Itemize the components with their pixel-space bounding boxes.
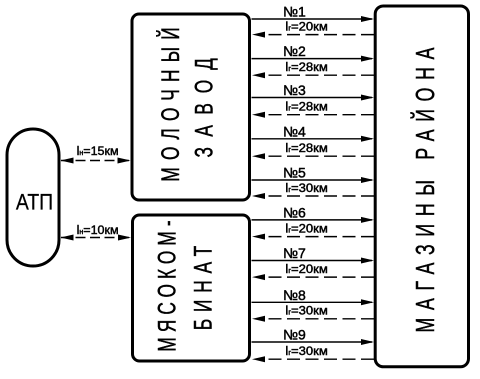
label lн=15км <box>77 144 119 158</box>
wire dashed shaft <box>61 160 131 162</box>
label АТП <box>16 190 53 215</box>
route 1 <box>252 4 375 38</box>
wire dashed return <box>269 358 375 360</box>
wire dashed return <box>269 34 375 36</box>
block МОЛОЧНЫЙ ЗАВОД (dairy plant) <box>132 14 250 200</box>
svg-text:№8: №8 <box>283 287 306 303</box>
label ЗАВОД <box>189 58 218 158</box>
arrowhead left <box>252 274 265 280</box>
label lг=30км <box>285 343 327 358</box>
label lг=30км <box>285 303 327 318</box>
arrowhead left <box>252 112 265 118</box>
wire dashed return <box>269 114 375 116</box>
svg-text:lг=28км: lг=28км <box>285 59 327 74</box>
block МЯСОКОМБИНАТ (meat plant) <box>133 215 250 361</box>
wire dashed shaft <box>61 237 131 239</box>
svg-text:АТП: АТП <box>16 190 53 215</box>
label lг=20км <box>285 261 327 276</box>
svg-text:ЗАВОД: ЗАВОД <box>189 58 218 158</box>
wire dashed return <box>269 195 375 197</box>
arrowhead right <box>361 177 374 183</box>
arrowhead right <box>361 339 374 345</box>
svg-text:№2: №2 <box>283 43 306 59</box>
arrowhead right <box>361 95 374 101</box>
label МОЛОЧНЫЙ <box>155 27 184 181</box>
route 8 <box>252 287 375 322</box>
label lн=10км <box>77 223 119 237</box>
arrowhead right <box>361 16 374 22</box>
arrowhead left <box>252 153 265 159</box>
zero-run link АТП, 15 km <box>61 144 131 163</box>
block МАГАЗИНЫ РАЙОНА (district shops) <box>375 6 468 367</box>
wire solid outbound <box>252 219 373 221</box>
route 4 <box>252 123 375 159</box>
label lг=28км <box>285 140 327 155</box>
route 3 <box>252 82 375 118</box>
svg-text:МЯСОКОМ-: МЯСОКОМ- <box>152 220 181 351</box>
svg-text:№1: №1 <box>283 4 306 20</box>
wire dashed return <box>269 236 375 238</box>
wire solid outbound <box>252 260 373 262</box>
arrowhead right <box>361 136 374 142</box>
svg-text:lн=15км: lн=15км <box>77 144 119 158</box>
svg-text:МАГАЗИНЫ РАЙОНА: МАГАЗИНЫ РАЙОНА <box>410 47 439 332</box>
zero-run link АТП, 10 km <box>61 223 132 240</box>
svg-text:№7: №7 <box>283 245 306 261</box>
label lг=28км <box>285 99 327 114</box>
svg-text:lг=20км: lг=20км <box>285 261 327 276</box>
svg-text:lг=20км: lг=20км <box>285 19 327 34</box>
svg-text:lг=30км: lг=30км <box>285 343 327 358</box>
arrowhead right <box>361 56 374 62</box>
svg-text:№4: №4 <box>283 123 306 139</box>
label lг=28км <box>285 59 327 74</box>
svg-text:№5: №5 <box>283 165 306 181</box>
block АТП (transport depot) <box>7 129 59 266</box>
arrowhead left <box>252 72 265 78</box>
wire solid outbound <box>252 341 373 343</box>
arrowhead left <box>252 316 265 322</box>
label МЯСОКОМ- <box>152 220 181 351</box>
label lг=20км <box>285 19 327 34</box>
arrowhead right <box>361 299 374 305</box>
label БИНАТ <box>188 246 217 330</box>
svg-text:lг=28км: lг=28км <box>285 140 327 155</box>
svg-text:lг=20км: lг=20км <box>285 221 327 236</box>
wire solid outbound <box>252 301 373 303</box>
route 7 <box>252 245 375 280</box>
svg-text:БИНАТ: БИНАТ <box>188 246 217 330</box>
svg-text:№6: №6 <box>283 204 306 220</box>
arrowhead left <box>252 234 265 240</box>
wire dashed return <box>269 276 375 278</box>
svg-text:lн=10км: lн=10км <box>77 223 119 237</box>
svg-text:№3: №3 <box>283 82 306 98</box>
arrowhead left <box>252 356 265 362</box>
svg-text:МОЛОЧНЫЙ: МОЛОЧНЫЙ <box>155 27 184 181</box>
wire solid outbound <box>252 138 373 140</box>
wire solid outbound <box>252 58 373 60</box>
wire solid outbound <box>252 179 373 181</box>
arrowhead left <box>61 235 74 241</box>
route 5 <box>252 165 375 199</box>
arrowhead left <box>252 193 265 199</box>
svg-text:lг=28км: lг=28км <box>285 99 327 114</box>
arrowhead right <box>361 217 374 223</box>
arrowhead right <box>118 158 131 164</box>
wire dashed return <box>269 318 375 320</box>
label lг=20км <box>285 221 327 236</box>
route 6 <box>252 204 375 239</box>
svg-text:lг=30км: lг=30км <box>285 180 327 195</box>
wire solid outbound <box>252 97 373 99</box>
svg-text:№9: №9 <box>283 327 306 343</box>
label lг=30км <box>285 180 327 195</box>
label МАГАЗИНЫ РАЙОНА <box>410 47 439 332</box>
wire solid outbound <box>252 18 373 20</box>
arrowhead left <box>252 32 265 38</box>
wire dashed return <box>269 155 375 157</box>
arrowhead right <box>361 258 374 264</box>
svg-text:lг=30км: lг=30км <box>285 303 327 318</box>
arrowhead left <box>61 158 74 164</box>
wire dashed return <box>269 74 375 76</box>
route 2 <box>252 43 375 78</box>
arrowhead right <box>118 235 131 241</box>
route 9 <box>252 327 375 363</box>
